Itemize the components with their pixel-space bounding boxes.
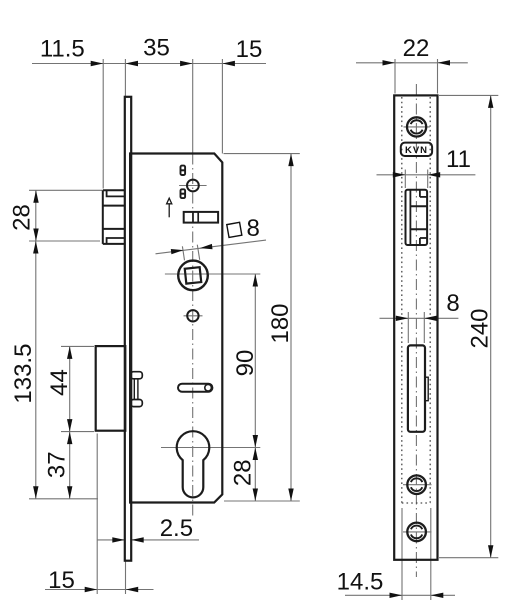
- svg-text:11: 11: [446, 146, 471, 173]
- svg-text:KVN: KVN: [405, 145, 428, 156]
- svg-text:35: 35: [143, 35, 170, 62]
- svg-text:8: 8: [247, 215, 260, 242]
- svg-text:11.5: 11.5: [40, 36, 85, 63]
- svg-text:22: 22: [403, 35, 430, 62]
- svg-text:8: 8: [446, 290, 459, 317]
- svg-text:180: 180: [267, 303, 294, 343]
- svg-text:44: 44: [46, 369, 73, 396]
- svg-text:90: 90: [232, 350, 259, 377]
- svg-text:240: 240: [467, 308, 494, 348]
- svg-text:28: 28: [8, 204, 35, 231]
- svg-text:2.5: 2.5: [160, 515, 193, 542]
- svg-text:15: 15: [236, 36, 263, 63]
- svg-text:14.5: 14.5: [337, 569, 384, 596]
- svg-text:28: 28: [230, 459, 257, 486]
- svg-text:37: 37: [44, 451, 71, 478]
- svg-text:133.5: 133.5: [10, 344, 37, 404]
- svg-text:15: 15: [48, 567, 75, 594]
